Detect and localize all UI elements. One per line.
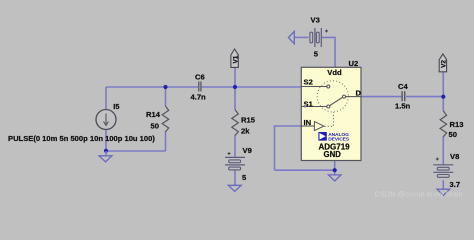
svg-text:V3: V3: [311, 16, 320, 25]
pin D: [343, 95, 346, 98]
svg-text:2k: 2k: [241, 127, 250, 136]
node flag V2: [439, 54, 447, 72]
switch arm S1-D: [330, 98, 343, 106]
wire V2 flag stem: [442, 72, 444, 97]
svg-text:V9: V9: [243, 146, 252, 155]
svg-text:C6: C6: [195, 72, 205, 81]
ground (I5/R14): [99, 156, 112, 162]
ground (V9): [228, 185, 241, 191]
wire V1 flag stem: [234, 67, 236, 87]
wire GND rail under U2: [275, 169, 335, 171]
node junction at I5 bottom: [104, 149, 108, 153]
svg-text:50: 50: [449, 130, 457, 139]
resistor R13: [440, 111, 463, 139]
analog switch U2 (ADG719 SPDT): [301, 59, 361, 161]
svg-text:V1: V1: [232, 55, 239, 63]
svg-text:U2: U2: [349, 59, 359, 68]
svg-text:1.5n: 1.5n: [395, 102, 411, 111]
svg-text:R15: R15: [241, 116, 256, 125]
wire V8 to ground: [442, 180, 444, 189]
ground (U2 GND): [328, 175, 341, 181]
node junction at V2/R13: [441, 95, 445, 99]
svg-text:GND: GND: [324, 150, 342, 159]
resistor R15: [232, 110, 256, 136]
ADI logo: [318, 132, 326, 141]
svg-text:S2: S2: [304, 78, 313, 87]
wire I5 top stub: [105, 87, 107, 110]
node flag V1: [231, 49, 239, 67]
switch dashed circle: [317, 81, 348, 112]
pin S1 unconnected dot: [304, 105, 306, 107]
svg-text:50: 50: [151, 122, 159, 131]
wire I5 bottom stub: [105, 130, 107, 152]
battery V8: [433, 152, 460, 189]
capacitor C4: [395, 82, 411, 111]
wire top rail right (C6 to S2 pin of U2): [202, 86, 302, 88]
battery V3 (horizontal): [310, 16, 328, 59]
pin IN with buffer: [301, 125, 314, 127]
wire R13 top stub: [442, 97, 444, 112]
ground (V8): [437, 189, 450, 195]
ground (V3, pointing left): [288, 31, 294, 43]
svg-text:PULSE(0 10m 5n 500p 10n 100p 1: PULSE(0 10m 5n 500p 10n 100p 10u 100): [8, 134, 155, 143]
svg-text:R13: R13: [450, 120, 464, 129]
wire D to C4: [361, 96, 402, 98]
node junction at V1/R15: [233, 85, 237, 89]
svg-text:CSDN @circuit in my brain: CSDN @circuit in my brain: [375, 189, 463, 198]
wire V3 to Vdd corner: [322, 37, 335, 67]
resistor R14: [146, 106, 169, 132]
svg-text:4.7n: 4.7n: [191, 93, 207, 102]
svg-text:R14: R14: [146, 110, 161, 119]
svg-text:IN: IN: [304, 118, 312, 127]
node junction at U2 GND: [333, 168, 337, 172]
wire top rail left (I5 to C6): [106, 86, 198, 88]
svg-text:3.7: 3.7: [450, 180, 461, 189]
wire R15 top stub: [234, 87, 236, 110]
wire bottom-left rail: [106, 150, 166, 152]
battery V9: [225, 146, 252, 182]
wire IN jumper: [275, 126, 302, 170]
current source I5: [96, 102, 120, 129]
wire R15 to V9: [234, 135, 236, 157]
wire V9 to ground: [234, 170, 236, 185]
svg-text:V2: V2: [441, 60, 448, 68]
svg-text:D: D: [356, 89, 362, 98]
wire R14 top stub: [165, 87, 167, 106]
pin S1: [301, 106, 326, 108]
svg-text:Vdd: Vdd: [327, 68, 342, 77]
pin S2: [301, 86, 326, 88]
wire V3 ground stem: [295, 36, 309, 38]
svg-text:I5: I5: [113, 102, 120, 111]
svg-text:V8: V8: [450, 152, 459, 161]
wire R14 bottom stub: [165, 132, 167, 152]
wire R13 to V8: [442, 137, 444, 165]
capacitor C6: [191, 72, 207, 101]
wire C4 to junction: [406, 96, 443, 98]
svg-text:C4: C4: [398, 82, 408, 91]
node junction at R14 top: [163, 85, 167, 89]
wire U2 GND pin stub: [334, 161, 336, 176]
